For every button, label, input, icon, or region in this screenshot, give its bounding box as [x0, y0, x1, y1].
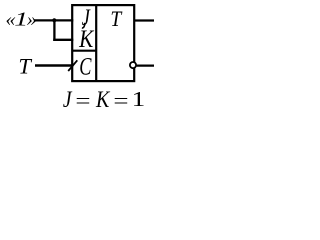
svg-text:K: K — [78, 26, 94, 54]
svg-text:T: T — [18, 54, 32, 79]
node junction dot — [52, 18, 56, 22]
flip-flop U1 body — [72, 5, 134, 81]
svg-text:=: = — [75, 89, 90, 113]
caption J = K = 1 — [63, 87, 73, 113]
inversion bubble on inverse output — [130, 62, 136, 68]
wire J input — [34, 19, 73, 21]
divider JK/C section — [72, 50, 96, 52]
wire C clock input — [35, 64, 73, 66]
svg-text:C: C — [79, 53, 92, 80]
svg-text:T: T — [110, 6, 122, 32]
svg-text:K: K — [95, 87, 111, 113]
svg-text:1: 1 — [132, 88, 146, 111]
wire vertical from junction — [53, 20, 55, 41]
divider control column — [95, 5, 97, 81]
pin label J tail — [82, 23, 85, 28]
pin label K — [78, 26, 94, 54]
pin label C — [79, 53, 92, 80]
wire Q output — [134, 19, 154, 21]
dynamic edge indicator on C — [68, 60, 77, 71]
wire inverse Q output — [137, 64, 154, 66]
svg-text:=: = — [113, 89, 128, 113]
pin label J — [82, 4, 92, 31]
svg-text:J: J — [63, 87, 73, 113]
function label T — [110, 6, 122, 32]
wire K input — [53, 39, 73, 41]
background — [0, 0, 162, 115]
